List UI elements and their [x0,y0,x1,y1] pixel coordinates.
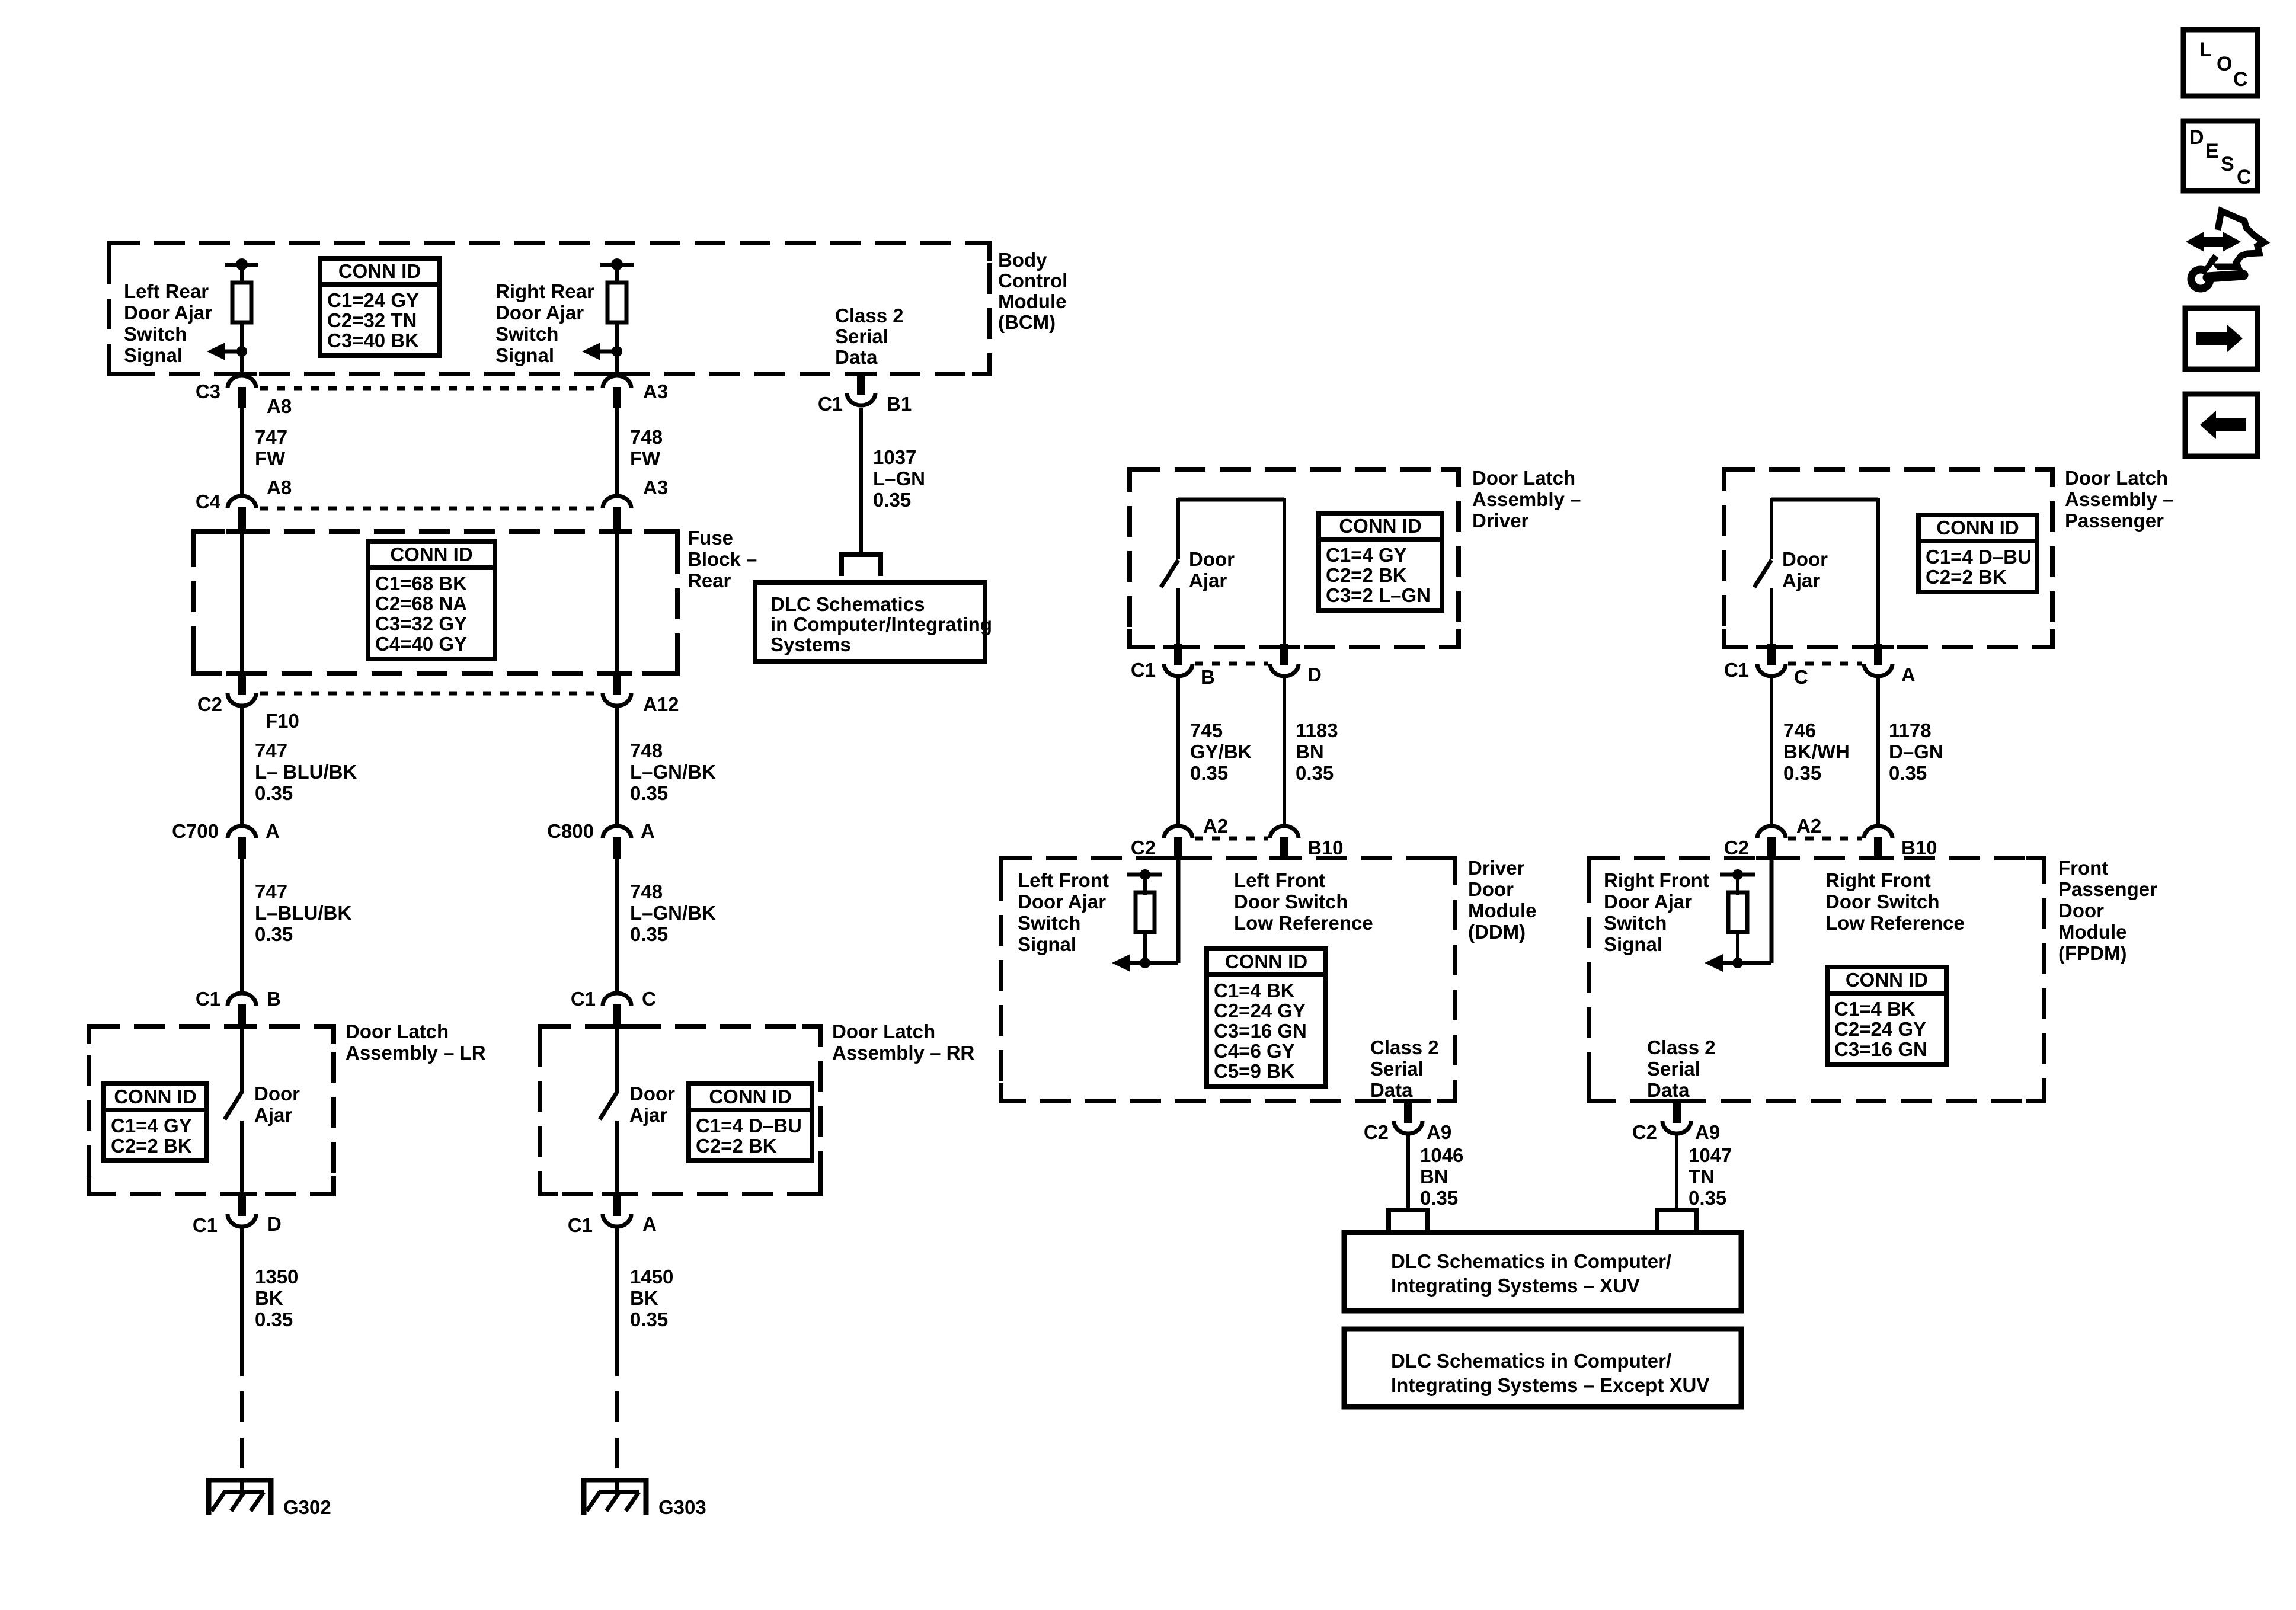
label C1 (LR latch) [196,988,220,1010]
svg-text:Door Ajar: Door Ajar [1604,891,1692,913]
label C4 [196,491,221,513]
svg-text:Driver: Driver [1468,857,1525,879]
svg-text:Door: Door [1189,548,1235,570]
svg-text:CONN ID: CONN ID [390,543,472,565]
off-page connector FPDM to DLC [1655,1208,1699,1231]
svg-text:A9: A9 [1427,1121,1451,1143]
switch door ajar RR [600,1092,617,1119]
wire left rail inside BCM [240,322,244,374]
svg-text:0.35: 0.35 [630,923,668,945]
dotted connector line C2-A12 [260,692,599,696]
box-edge dash fuse top right [602,529,632,534]
svg-text:1183: 1183 [1296,719,1338,741]
svg-text:CONN ID: CONN ID [114,1086,196,1108]
box-edge dash DDM bottom [1393,1099,1424,1103]
svg-text:C: C [1794,666,1808,688]
svg-text:C1=4 GY: C1=4 GY [111,1115,192,1137]
module box Driver Door Module (DDM) [1001,858,1455,1101]
svg-text:C1=68 BK: C1=68 BK [375,572,467,594]
svg-text:C1: C1 [196,988,220,1010]
svg-text:Assembly – RR: Assembly – RR [832,1042,974,1064]
svg-text:C1=4 BK: C1=4 BK [1214,980,1295,1001]
label A3 (fuse right) [643,476,668,498]
svg-text:(BCM): (BCM) [998,311,1056,333]
svg-text:1178: 1178 [1889,719,1932,741]
svg-text:C2=32 TN: C2=32 TN [327,309,417,331]
svg-text:A: A [1901,664,1916,686]
svg-text:C700: C700 [172,820,219,842]
connector C4 pin A8 (fuse block) [228,496,256,529]
conn-id table FPDM [1827,967,1946,1064]
label wire 748 L-GN/BK 0.35 [630,740,716,804]
label wire 747 L- BLU/BK 0.35 [255,740,357,804]
svg-text:Door: Door [2058,900,2104,921]
box-edge dash FPDM bottom [1661,1099,1692,1103]
switch door ajar driver [1161,560,1178,587]
label DLC Except XUV [1391,1350,1709,1396]
box-edge dash fuse bottom left [226,671,257,676]
wire 748 FW [615,408,619,496]
svg-text:Serial: Serial [835,325,888,347]
svg-text:Ajar: Ajar [1782,569,1820,591]
svg-text:C2: C2 [197,693,222,715]
svg-text:C1: C1 [193,1214,218,1236]
svg-text:Door Ajar: Door Ajar [495,302,584,324]
wire 1178 D-GN [1876,677,1880,827]
label C1 (LR bottom) [193,1214,218,1236]
svg-text:Ajar: Ajar [1189,569,1227,591]
conn-id table RR latch [689,1084,812,1161]
label Door Ajar (passenger) [1782,548,1828,591]
connector C1 pin D (LR bottom) [228,1195,256,1227]
svg-text:(DDM): (DDM) [1468,921,1526,943]
svg-text:Signal: Signal [495,344,554,366]
svg-text:A3: A3 [643,380,668,402]
module box Door Latch Assembly - RR [540,1026,820,1194]
label C1 (driver latch) [1131,659,1156,681]
svg-text:C1: C1 [1724,659,1749,681]
svg-text:747: 747 [255,740,287,761]
module box Door Latch Assembly - LR [89,1026,334,1194]
connector C3 pin A8 (BCM) [228,376,256,408]
wire 1046 BN [1406,1134,1410,1209]
box-edge dash at C1-B1 crossing [846,372,877,376]
svg-text:C3=40 BK: C3=40 BK [327,329,419,351]
svg-text:Signal: Signal [1018,933,1076,955]
svg-text:B: B [1201,666,1215,688]
svg-text:Passenger: Passenger [2058,878,2157,900]
wire DDM input [1176,858,1181,963]
wire right inside fuse block [615,529,619,676]
module box Door Latch Assembly - Driver [1130,469,1459,647]
svg-text:0.35: 0.35 [255,1308,293,1330]
svg-text:Module: Module [1468,900,1536,921]
svg-text:BN: BN [1420,1166,1448,1188]
svg-text:BK/WH: BK/WH [1783,741,1850,763]
label C2 (FPDM) [1724,837,1749,859]
wire into LR switch [240,1026,244,1093]
svg-text:CONN ID: CONN ID [1225,950,1307,972]
svg-text:B: B [267,988,281,1010]
svg-text:Ajar: Ajar [629,1104,667,1126]
svg-text:C3=32 GY: C3=32 GY [375,613,467,635]
svg-text:A9: A9 [1695,1121,1720,1143]
svg-text:CONN ID: CONN ID [709,1086,791,1108]
dotted connector line C3-A3 [260,386,599,391]
connector C700 pin A [228,826,256,859]
svg-text:A8: A8 [267,476,292,498]
svg-text:C2: C2 [1131,837,1156,859]
label C (RR latch) [642,988,656,1010]
svg-text:B10: B10 [1901,837,1937,859]
svg-text:A: A [642,1213,657,1235]
label C800 [547,820,594,842]
connector A12 (fuse bottom right) [603,674,631,706]
label C1 (passenger latch) [1724,659,1749,681]
svg-text:0.35: 0.35 [630,782,668,804]
label D (driver latch) [1307,664,1322,686]
svg-text:Data: Data [835,346,878,368]
svg-text:C2=2 BK: C2=2 BK [696,1135,777,1157]
svg-text:in Computer/Integrating: in Computer/Integrating [770,613,992,635]
svg-text:C2=68 NA: C2=68 NA [375,593,467,614]
box-edge dash LR bottom [226,1192,257,1196]
label Door Ajar (LR) [254,1083,300,1126]
svg-text:B10: B10 [1307,837,1344,859]
svg-text:0.35: 0.35 [1420,1187,1458,1209]
conn-id table fuse block [368,542,495,659]
label DLC Schematics [770,593,992,655]
svg-text:Integrating Systems – Except X: Integrating Systems – Except XUV [1391,1374,1709,1396]
svg-text:0.35: 0.35 [255,923,293,945]
svg-text:Assembly –: Assembly – [1472,488,1581,510]
label A9 (DDM) [1427,1121,1451,1143]
svg-text:A8: A8 [267,395,292,417]
label Left Front Door Switch Low Reference [1234,869,1373,934]
label A3 (BCM right) [643,380,668,402]
connector D (driver latch) [1270,644,1299,676]
label A (C800) [641,820,655,842]
svg-text:G303: G303 [658,1496,706,1518]
label A (passenger latch) [1901,664,1916,686]
label Door Latch Assembly - Driver [1472,467,1581,532]
arrow left rear switch signal [207,343,247,360]
svg-text:Door Switch: Door Switch [1825,891,1940,913]
dotted connector line C4-A3 [260,507,599,511]
conn-id table BCM C1 [320,258,439,356]
label C1 (B1) [818,393,843,415]
svg-text:C1: C1 [818,393,843,415]
svg-text:Fuse: Fuse [687,527,733,549]
label DDM [1468,857,1536,943]
svg-text:E: E [2205,140,2219,162]
svg-text:A2: A2 [1203,815,1228,837]
wire 1047 TN [1675,1134,1678,1209]
label C (passenger latch) [1794,666,1808,688]
wire 747 L-BLU/BK lower [240,859,244,994]
label wire 1037 L-GN 0.35 [873,446,925,511]
svg-text:Serial: Serial [1370,1058,1424,1080]
label Right Front Door Switch Low Reference [1825,869,1965,934]
svg-text:C800: C800 [547,820,594,842]
label Fuse Block - Rear [687,527,757,591]
label Right Rear Door Ajar Switch Signal [495,280,594,366]
label F10 [266,710,299,732]
wire passenger switch to box edge [1770,588,1773,649]
svg-text:L–GN/BK: L–GN/BK [630,761,716,783]
label Door Ajar (driver) [1189,548,1235,591]
box-edge dash fuse bottom right [602,671,632,676]
label B (LR latch) [267,988,281,1010]
svg-text:747: 747 [255,426,287,448]
svg-text:1450: 1450 [630,1266,673,1288]
svg-text:C3=2 L–GN: C3=2 L–GN [1326,584,1431,606]
label A9 (FPDM) [1695,1121,1720,1143]
svg-text:L–GN/BK: L–GN/BK [630,902,716,924]
label Door Latch Assembly - RR [832,1020,974,1064]
svg-text:BN: BN [1296,741,1324,763]
connector A3 (BCM right) [603,376,631,408]
svg-text:Assembly – LR: Assembly – LR [346,1042,486,1064]
svg-text:Class 2: Class 2 [1647,1036,1716,1058]
label C2 (DDM) [1131,837,1156,859]
box-edge dash FPDM top left [1756,856,1787,860]
off-page connector to DLC [839,552,883,576]
svg-text:0.35: 0.35 [1889,762,1927,784]
svg-text:Door Ajar: Door Ajar [1018,891,1106,913]
svg-text:Door Latch: Door Latch [1472,467,1575,489]
switch door ajar LR [225,1092,242,1119]
svg-text:Rear: Rear [687,569,731,591]
connector A (passenger latch) [1864,644,1892,676]
ground G302 [207,1478,273,1515]
svg-text:Body: Body [998,249,1047,271]
label A8 (C3) [267,395,292,417]
svg-text:1350: 1350 [255,1266,298,1288]
wire driver latch loop [1178,498,1284,649]
svg-text:Door: Door [1468,878,1514,900]
dotted connector line C1-A passenger [1788,662,1862,666]
box-edge dash at C3 crossing [226,372,257,376]
box-edge dash DDM top left [1163,856,1194,860]
label C2 (A9 FPDM) [1632,1121,1657,1143]
svg-text:BK: BK [255,1287,283,1309]
box-edge dash RR top [602,1024,632,1029]
box-edge dash passenger latch bottom right [1863,645,1894,649]
wire passenger latch loop [1771,498,1878,649]
conn-id table DDM [1207,949,1326,1086]
label C1 (RR latch) [571,988,596,1010]
svg-text:Right Front: Right Front [1825,869,1931,891]
svg-text:S: S [2221,153,2234,175]
label Class 2 Serial Data (DDM) [1370,1036,1439,1101]
label wire 1046 BN 0.35 [1420,1144,1463,1209]
label Door Ajar (RR) [629,1083,675,1126]
svg-text:C2=24 GY: C2=24 GY [1834,1018,1926,1040]
svg-text:Integrating Systems – XUV: Integrating Systems – XUV [1391,1275,1640,1297]
icon right arrow box [2185,308,2257,369]
svg-text:0.35: 0.35 [873,489,911,511]
svg-text:Door Ajar: Door Ajar [124,302,212,324]
svg-text:0.35: 0.35 [1689,1187,1726,1209]
svg-text:Low Reference: Low Reference [1234,912,1373,934]
svg-text:1047: 1047 [1689,1144,1732,1166]
svg-text:C: C [2233,68,2248,91]
module box BCM (Body Control Module) [109,243,990,374]
label Door Latch Assembly - LR [346,1020,486,1064]
svg-text:CONN ID: CONN ID [1846,969,1928,991]
svg-text:Block –: Block – [687,548,757,570]
connector C2 pin F10 (fuse bottom) [228,674,256,706]
wire 746 BK/WH [1770,677,1773,827]
svg-text:D–GN: D–GN [1889,741,1943,763]
svg-text:Door: Door [254,1083,300,1105]
module box Front Passenger Door Module (FPDM) [1589,858,2044,1101]
label B (driver latch) [1201,666,1215,688]
label DLC XUV [1391,1250,1671,1297]
box-edge dash at A3 crossing [602,372,632,376]
svg-text:C1=24 GY: C1=24 GY [327,289,419,311]
connector B10 (FPDM top) [1864,826,1892,859]
svg-text:Door: Door [1782,548,1828,570]
dotted connector line C1-D driver [1195,662,1268,666]
wire 1037 L-GN [859,408,863,555]
wire 1183 BN [1283,677,1286,827]
box-edge dash FPDM top right [1863,856,1894,860]
label BCM [998,249,1067,333]
box DLC Schematics Except XUV [1344,1329,1741,1407]
svg-text:Left Front: Left Front [1234,869,1325,891]
svg-text:C4=40 GY: C4=40 GY [375,633,467,655]
svg-text:C1: C1 [1131,659,1156,681]
svg-text:C2=2 BK: C2=2 BK [1326,564,1407,586]
svg-text:Assembly –: Assembly – [2065,488,2173,510]
svg-text:Switch: Switch [495,323,558,345]
svg-text:Front: Front [2058,857,2108,879]
svg-text:L–BLU/BK: L–BLU/BK [255,902,351,924]
svg-text:Ajar: Ajar [254,1104,292,1126]
svg-text:Signal: Signal [1604,933,1662,955]
box DLC Schematics in Computer/Integrating Systems [755,582,985,661]
arrow left front switch signal [1112,954,1178,972]
arrow right front switch signal [1705,954,1771,972]
svg-text:C3=16 GN: C3=16 GN [1214,1020,1307,1042]
box-edge dash DDM top right [1269,856,1300,860]
svg-text:748: 748 [630,881,663,902]
wire 1450 BK [615,1227,619,1480]
arrow right rear switch signal [582,343,622,360]
wire 748 L-GN/BK upper [615,706,619,827]
svg-text:C1: C1 [571,988,596,1010]
connector C1 pin B (driver latch) [1164,644,1192,676]
svg-text:DLC Schematics: DLC Schematics [770,593,925,615]
svg-text:Module: Module [998,290,1066,312]
svg-text:1046: 1046 [1420,1144,1463,1166]
label wire 1183 BN 0.35 [1296,719,1338,784]
svg-text:A2: A2 [1796,815,1821,837]
svg-text:C2=2 BK: C2=2 BK [1926,566,2007,588]
label wire 748 FW [630,426,663,469]
svg-text:Data: Data [1370,1079,1413,1101]
connector C2 pin A9 (FPDM class 2) [1662,1102,1691,1134]
label A (RR bottom) [642,1213,657,1235]
label wire 1450 BK 0.35 [630,1266,673,1330]
svg-text:0.35: 0.35 [1190,762,1228,784]
label D (LR bottom) [267,1213,282,1235]
svg-text:746: 746 [1783,719,1816,741]
svg-text:Switch: Switch [1018,912,1080,934]
connector C2 pin A9 (DDM class 2) [1394,1102,1422,1134]
label B10 (DDM) [1307,837,1344,859]
box-edge dash fuse top left [226,529,257,534]
wire 747 L-BLU/BK upper [240,706,244,827]
resistor left rear door ajar pull-up [225,258,258,322]
svg-text:C2: C2 [1724,837,1749,859]
svg-text:A: A [266,820,280,842]
connector C1 pin A (RR bottom) [603,1195,631,1227]
label G302 [283,1496,331,1518]
svg-text:L: L [2199,39,2212,61]
box-edge dash driver latch bottom left [1163,645,1194,649]
wire RR switch to box edge [615,1121,619,1196]
label A2 (DDM) [1203,815,1228,837]
svg-text:C5=9 BK: C5=9 BK [1214,1060,1295,1082]
svg-text:D: D [2189,126,2204,149]
svg-text:Door Latch: Door Latch [346,1020,449,1042]
off-page connector DDM to DLC [1386,1208,1430,1231]
svg-text:F10: F10 [266,710,299,732]
svg-text:CONN ID: CONN ID [338,260,421,282]
svg-text:C2=2 BK: C2=2 BK [111,1135,192,1157]
svg-text:Door Latch: Door Latch [832,1020,935,1042]
svg-text:Module: Module [2058,921,2126,943]
svg-text:G302: G302 [283,1496,331,1518]
svg-text:L–GN: L–GN [873,468,925,489]
conn-id table LR latch [104,1084,207,1161]
label Left Front Door Ajar Switch Signal [1018,869,1109,955]
connector C1 pin B1 (BCM class 2) [847,373,875,405]
svg-text:Driver: Driver [1472,510,1529,532]
label Class 2 Serial Data (FPDM) [1647,1036,1716,1101]
svg-text:1037: 1037 [873,446,916,468]
label Class 2 Serial Data (BCM) [835,305,904,368]
svg-text:C3=16 GN: C3=16 GN [1834,1038,1927,1060]
svg-text:Door Switch: Door Switch [1234,891,1348,913]
svg-text:Door Latch: Door Latch [2065,467,2168,489]
label wire 1350 BK 0.35 [255,1266,298,1330]
svg-text:Class 2: Class 2 [835,305,904,327]
svg-text:CONN ID: CONN ID [1936,517,2019,539]
svg-text:Serial: Serial [1647,1058,1700,1080]
svg-text:C1=4 GY: C1=4 GY [1326,544,1407,566]
label Right Front Door Ajar Switch Signal [1604,869,1709,955]
svg-text:C4=6 GY: C4=6 GY [1214,1040,1295,1062]
svg-text:C4: C4 [196,491,221,513]
svg-text:C2: C2 [1632,1121,1657,1143]
conn-id table passenger latch [1918,515,2037,592]
svg-text:CONN ID: CONN ID [1339,515,1421,537]
resistor left front door ajar pull-up [1127,869,1162,963]
svg-text:D: D [267,1213,282,1235]
svg-text:Right Front: Right Front [1604,869,1709,891]
svg-text:FW: FW [255,447,286,469]
wire 745 GY/BK [1176,677,1180,827]
svg-text:Left Front: Left Front [1018,869,1109,891]
label A (C700) [266,820,280,842]
label wire 746 BK/WH 0.35 [1783,719,1850,784]
svg-text:(FPDM): (FPDM) [2058,942,2126,964]
wire into RR switch [615,1026,619,1093]
